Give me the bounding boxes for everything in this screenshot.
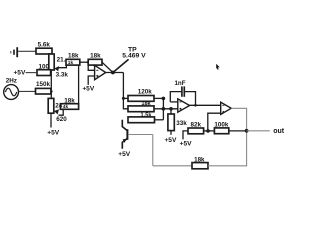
- svg-text:24: 24: [55, 103, 63, 110]
- resistor 100k: [208, 121, 247, 133]
- svg-text:150k: 150k: [36, 81, 51, 88]
- op-amp U1: [95, 65, 106, 79]
- junction out node: [245, 129, 249, 133]
- wire 18k right end up: [78, 65, 80, 104]
- test point callout: [113, 46, 146, 72]
- svg-text:18k: 18k: [64, 97, 75, 104]
- resistor 100: [37, 64, 51, 76]
- svg-text:21.: 21.: [57, 56, 66, 63]
- op-amp U2: [178, 99, 190, 112]
- potentiometer P2: [48, 98, 67, 123]
- svg-text:620: 620: [56, 116, 67, 123]
- svg-text:18k: 18k: [90, 53, 101, 60]
- wire feedback diagonal: [102, 62, 113, 72]
- wire +5V to R100: [26, 72, 37, 74]
- wire row3 to bus: [155, 119, 164, 121]
- wire op-amp1 output: [106, 72, 124, 74]
- wire gray bottom right: [208, 131, 247, 166]
- mouse cursor: [216, 64, 220, 70]
- svg-text:+5V: +5V: [47, 129, 60, 136]
- svg-text:+5V: +5V: [180, 141, 193, 148]
- wire source to 150k: [19, 90, 36, 92]
- wire ground to R 5.6k: [18, 50, 36, 52]
- junction op1 out: [111, 71, 115, 75]
- wire row1 stub: [123, 97, 128, 99]
- wire row2 to op-amp2 plus: [154, 108, 178, 110]
- node junction 150k: [50, 90, 53, 93]
- svg-text:5.6k: 5.6k: [38, 41, 51, 48]
- wire gray bottom left: [153, 165, 192, 167]
- resistor 18k B feedback: [88, 53, 102, 66]
- resistor 18k with 4k: [55, 97, 78, 110]
- svg-text:120k: 120k: [138, 88, 153, 95]
- wire cap to op-amp2 minus: [170, 101, 178, 103]
- svg-text:1.5k: 1.5k: [141, 112, 153, 118]
- wire row1 to bus: [154, 97, 163, 99]
- wire pot1 bottom down: [50, 70, 52, 98]
- junction 82k/100k: [206, 129, 210, 133]
- wire base gray: [128, 134, 153, 136]
- potentiometer P1: [49, 54, 69, 78]
- resistor 18k A: [66, 53, 80, 66]
- resistor 150k: [36, 81, 51, 94]
- svg-text:82k: 82k: [191, 121, 202, 128]
- wire op-amp1 plus to +5V: [88, 76, 94, 85]
- svg-text:33k: 33k: [176, 120, 187, 127]
- wire between 18k A and 18k B: [80, 61, 88, 63]
- svg-text:2Hz: 2Hz: [6, 78, 17, 85]
- svg-text:100k: 100k: [214, 121, 229, 128]
- svg-text:5.469 V: 5.469 V: [122, 52, 146, 59]
- svg-text:18k: 18k: [141, 101, 151, 107]
- svg-text:18k: 18k: [194, 156, 205, 163]
- wire op2 out to op3: [190, 104, 221, 106]
- svg-text:+5V: +5V: [118, 151, 131, 158]
- resistor 82k: [180, 121, 208, 147]
- svg-text:4k: 4k: [63, 104, 69, 110]
- op-amp U3: [221, 102, 232, 114]
- wire out gray: [247, 130, 270, 132]
- svg-text:out: out: [273, 128, 285, 135]
- ground: [11, 47, 17, 57]
- resistor 120k: [128, 88, 154, 101]
- wire to op-amp1 minus: [88, 62, 94, 70]
- wire pot2 bottom to +5V: [50, 113, 52, 127]
- resistor 33k: [164, 109, 187, 144]
- resistor 18k bottom: [192, 156, 208, 168]
- svg-text:3.3k: 3.3k: [56, 71, 69, 78]
- wire op1 out down to rows: [123, 73, 128, 109]
- wire node to op3 plus: [208, 113, 221, 131]
- svg-text:+5V: +5V: [164, 137, 177, 144]
- transistor Q1 PNP: [118, 120, 131, 158]
- svg-text:+5V: +5V: [13, 69, 26, 76]
- svg-text:100: 100: [39, 64, 50, 71]
- resistor 1.5k row3: [128, 112, 155, 122]
- capacitor 1nF: [170, 80, 195, 106]
- svg-text:18k: 18k: [68, 53, 79, 60]
- svg-text:+5V: +5V: [82, 85, 95, 92]
- source 2Hz: [4, 78, 19, 100]
- resistor 18k row2: [128, 101, 154, 112]
- wire gray left down: [152, 135, 154, 166]
- wire op3 out gray: [231, 108, 246, 131]
- svg-text:1nF: 1nF: [174, 80, 185, 87]
- svg-text:1k: 1k: [68, 60, 74, 66]
- bus vertical: [162, 98, 164, 119]
- resistor 5.6k: [36, 41, 52, 54]
